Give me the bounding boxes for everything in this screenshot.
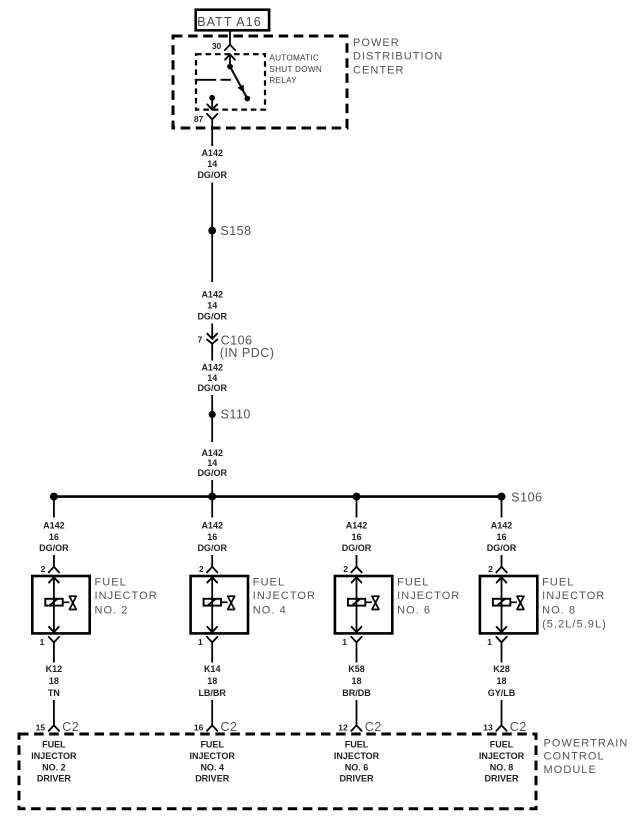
injector pin 2 male arrow [497,577,507,582]
svg-text:18: 18 [496,676,506,686]
svg-text:12: 12 [338,723,348,733]
svg-text:DRIVER: DRIVER [484,774,519,784]
svg-text:DISTRIBUTION: DISTRIBUTION [353,51,443,63]
injector pin 2 male arrow [352,577,362,582]
wire bus to injector NO. 6 [356,497,358,518]
svg-text:FUEL: FUEL [490,740,514,750]
injector coil element [493,599,510,606]
wire BATT A16 to relay pin 30 [229,31,231,45]
injector pin 2 female half [49,567,59,573]
svg-text:A142: A142 [201,448,223,458]
wire injector to PCM [211,642,213,662]
wire [211,555,213,567]
connector C2 female half branch 3 [351,725,361,731]
injector internal wire [501,577,503,632]
svg-text:INJECTOR: INJECTOR [479,751,525,761]
svg-text:16: 16 [49,532,59,542]
svg-text:CENTER: CENTER [353,65,405,77]
wire [53,700,55,725]
svg-text:DRIVER: DRIVER [195,774,230,784]
wire [211,415,213,443]
wire [501,555,503,567]
connector pair at pin 30 (male arrow) [225,54,235,59]
svg-text:13: 13 [483,723,493,733]
svg-text:NO. 6: NO. 6 [397,604,431,616]
injector pin 1 female half [351,637,361,643]
svg-text:FUEL: FUEL [200,740,224,750]
wire [211,700,213,725]
relay switch common node dot [227,64,233,70]
svg-text:14: 14 [207,458,217,468]
svg-text:A142: A142 [346,521,368,531]
svg-text:FUEL: FUEL [95,576,127,588]
svg-text:A142: A142 [201,363,223,373]
svg-text:A142: A142 [491,521,513,531]
pin 87 female half [207,114,217,120]
fuel injector NO. 8 box [480,576,537,633]
injector pin 2 female half [207,567,217,573]
connector C106 male arrow [207,334,217,339]
svg-text:DRIVER: DRIVER [37,774,72,784]
wire bus to injector NO. 8 [501,497,503,518]
svg-text:BR/DB: BR/DB [342,688,371,698]
wire [53,555,55,567]
injector pin 1 male arrow [207,627,217,632]
svg-text:K58: K58 [348,664,365,674]
injector valve (hourglass) [69,596,76,609]
bus junction dot 2 [208,493,216,501]
bus junction dot 4 [498,493,506,501]
svg-text:NO. 4: NO. 4 [253,604,287,616]
svg-text:DG/OR: DG/OR [197,312,227,322]
svg-text:S110: S110 [221,407,251,421]
svg-text:S158: S158 [220,224,251,238]
splice S158 [208,227,216,235]
svg-text:K28: K28 [493,664,510,674]
svg-text:DG/OR: DG/OR [197,383,227,393]
svg-text:15: 15 [36,723,46,733]
svg-text:A142: A142 [201,148,223,158]
bus junction dot 1 [50,493,58,501]
svg-text:DG/OR: DG/OR [487,543,517,553]
relay switch blade (diagonal) with arrowhead [230,67,247,99]
svg-text:S106: S106 [511,490,542,504]
svg-text:FUEL: FUEL [397,576,429,588]
wire [356,555,358,567]
battery feed BATT A16 [196,10,269,31]
svg-text:INJECTOR: INJECTOR [397,590,460,602]
svg-text:NO. 6: NO. 6 [345,762,369,772]
svg-text:INJECTOR: INJECTOR [253,590,316,602]
svg-text:INJECTOR: INJECTOR [542,590,605,602]
injector internal wire [53,577,55,632]
injector pin 2 female half [496,567,506,573]
relay contact dot [244,96,250,102]
svg-text:A142: A142 [43,521,65,531]
svg-text:(5.2L/5.9L): (5.2L/5.9L) [542,619,607,631]
svg-text:NO. 2: NO. 2 [95,604,129,616]
injector pin 2 male arrow [49,577,59,582]
wire injector to PCM [501,642,503,662]
svg-text:DG/OR: DG/OR [197,468,227,478]
injector pin 1 female half [49,637,59,643]
injector pin 2 male arrow [207,577,217,582]
injector valve (hourglass) [228,596,235,609]
link to valve [63,601,70,603]
wire [211,324,213,339]
svg-text:2: 2 [41,564,46,574]
svg-text:2: 2 [343,564,348,574]
svg-text:C2: C2 [62,720,79,734]
fuel injector NO. 4 box [191,576,248,633]
svg-text:NO. 8: NO. 8 [490,762,514,772]
svg-text:TN: TN [48,688,60,698]
svg-text:1: 1 [40,637,45,647]
injector pin 1 male arrow [497,627,507,632]
powertrain control module dashed box [19,734,536,809]
svg-text:POWER: POWER [353,37,400,49]
svg-text:SHUT DOWN: SHUT DOWN [269,65,322,74]
wire bus to injector NO. 2 [53,497,55,518]
svg-text:14: 14 [207,301,217,311]
splice S106 bus wire [54,495,502,498]
wire pin 87 down through PDC edge [211,119,213,146]
svg-text:1: 1 [487,637,492,647]
injector pin 1 female half [496,637,506,643]
svg-text:16: 16 [207,532,217,542]
link to valve [221,601,228,603]
svg-text:MODULE: MODULE [544,764,597,776]
svg-text:18: 18 [207,676,217,686]
svg-text:16: 16 [496,532,506,542]
connector C2 female half branch 4 [496,725,506,731]
wire [501,700,503,725]
injector pin 1 male arrow [49,627,59,632]
wire [356,700,358,725]
svg-text:K14: K14 [204,664,221,674]
svg-text:1: 1 [342,637,347,647]
bus junction dot 3 [353,493,361,501]
svg-text:INJECTOR: INJECTOR [95,590,158,602]
svg-text:POWERTRAIN: POWERTRAIN [544,737,629,749]
injector coil element [348,599,365,606]
svg-text:C2: C2 [365,720,382,734]
svg-text:C2: C2 [221,720,238,734]
relay coil actuation dashed line [196,79,216,81]
svg-text:C2: C2 [510,720,527,734]
wire [211,344,213,361]
wire bus to injector NO. 4 [211,497,213,518]
svg-text:DG/OR: DG/OR [342,543,372,553]
svg-text:2: 2 [199,564,204,574]
power distribution center dashed box [173,36,347,128]
svg-text:DRIVER: DRIVER [339,774,374,784]
svg-text:A142: A142 [201,290,223,300]
svg-text:7: 7 [198,334,203,344]
automatic shutdown relay dashed box [196,54,265,109]
wire [211,395,213,415]
svg-text:DG/OR: DG/OR [197,170,227,180]
wire injector to PCM [53,642,55,662]
injector valve (hourglass) [372,596,379,609]
svg-text:NO. 2: NO. 2 [42,762,66,772]
injector internal wire [211,577,213,632]
svg-text:GY/LB: GY/LB [488,688,516,698]
connector C2 female half branch 1 [49,725,59,731]
svg-text:INJECTOR: INJECTOR [31,751,77,761]
connector pair at pin 30 (female half) [225,45,235,51]
svg-text:DG/OR: DG/OR [197,543,227,553]
svg-text:AUTOMATIC: AUTOMATIC [269,54,319,63]
svg-text:LB/BR: LB/BR [198,688,226,698]
svg-text:DG/OR: DG/OR [39,543,69,553]
injector internal wire [356,577,358,632]
svg-text:2: 2 [488,564,493,574]
svg-text:FUEL: FUEL [42,740,66,750]
svg-text:FUEL: FUEL [345,740,369,750]
relay pin 87 node dot [209,95,215,101]
svg-text:16: 16 [194,723,204,733]
svg-text:K12: K12 [46,664,63,674]
svg-text:NO. 4: NO. 4 [200,762,224,772]
injector pin 1 female half [207,637,217,643]
svg-text:FUEL: FUEL [542,576,574,588]
svg-text:(IN PDC): (IN PDC) [220,346,275,360]
injector coil element [45,599,62,606]
fuel injector NO. 6 box [335,576,392,633]
svg-text:18: 18 [49,676,59,686]
svg-text:BATT A16: BATT A16 [197,15,262,29]
connector C106 female half [207,340,217,344]
svg-text:CONTROL: CONTROL [544,751,605,763]
svg-text:FUEL: FUEL [253,576,285,588]
splice S110 [209,411,216,418]
link to valve [510,601,517,603]
pin 87 male arrow [211,98,213,110]
svg-text:30: 30 [212,41,222,51]
svg-text:14: 14 [207,373,217,383]
connector C2 female half branch 2 [207,725,217,731]
injector valve (hourglass) [517,596,524,609]
wire to splice bus [211,480,213,497]
svg-text:16: 16 [351,532,361,542]
injector pin 2 female half [351,567,361,573]
wire [211,183,213,231]
svg-text:INJECTOR: INJECTOR [190,751,236,761]
svg-text:RELAY: RELAY [269,76,297,85]
svg-text:A142: A142 [201,521,223,531]
svg-text:87: 87 [194,114,204,124]
injector coil element [204,599,221,606]
svg-text:1: 1 [198,637,203,647]
wire [211,235,213,283]
wire injector to PCM [356,642,358,662]
svg-text:18: 18 [351,676,361,686]
injector pin 1 male arrow [352,627,362,632]
svg-text:NO. 8: NO. 8 [542,604,576,616]
fuel injector NO. 2 box [32,576,89,633]
link to valve [365,601,372,603]
svg-text:INJECTOR: INJECTOR [334,751,380,761]
svg-text:14: 14 [207,159,217,169]
